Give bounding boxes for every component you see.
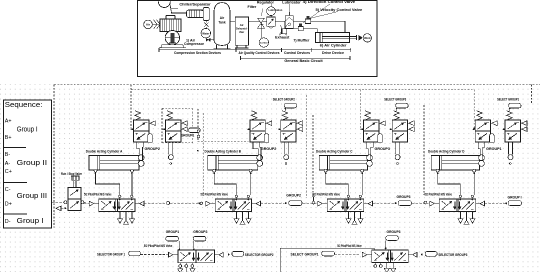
svg-text:GROUP3: GROUP3 (387, 230, 401, 234)
svg-text:Group I: Group I (17, 218, 44, 225)
svg-text:GROUP2: GROUP2 (145, 147, 161, 151)
svg-text:Double Acting Cylinder B: Double Acting Cylinder B (205, 149, 242, 153)
svg-text:Chiller/Separator: Chiller/Separator (179, 2, 211, 6)
svg-text:SELECT GROUP1: SELECT GROUP1 (291, 253, 319, 257)
svg-text:SELECT GROUP3: SELECT GROUP3 (384, 97, 406, 101)
svg-text:C-: C- (5, 187, 11, 193)
svg-text:A-: A- (5, 161, 11, 167)
svg-text:GROUP I: GROUP I (508, 195, 522, 199)
svg-text:SELECT GROUP2: SELECT GROUP2 (273, 97, 295, 101)
svg-text:GROUP1: GROUP1 (166, 230, 180, 234)
svg-text:GROUP1: GROUP1 (181, 133, 194, 137)
svg-text:GROUP3: GROUP3 (375, 147, 391, 151)
svg-text:5/2 Pilot/Pilot M/S Valve: 5/2 Pilot/Pilot M/S Valve (144, 244, 173, 248)
svg-text:Work: Work (364, 36, 371, 40)
svg-text:Group III: Group III (17, 193, 47, 200)
svg-text:5) Velocity Control Valve: 5) Velocity Control Valve (316, 8, 363, 12)
svg-text:Compression Section Devices: Compression Section Devices (174, 51, 221, 55)
svg-text:D+: D+ (5, 201, 12, 207)
svg-text:Run / Stop Valve: Run / Stop Valve (61, 172, 82, 176)
svg-text:B+: B+ (5, 135, 12, 141)
svg-text:Lubricator: Lubricator (282, 0, 301, 4)
svg-text:Compressor: Compressor (184, 42, 205, 46)
svg-text:SELECTOR GROUP2: SELECTOR GROUP2 (245, 253, 274, 257)
svg-text:Group I: Group I (17, 126, 38, 133)
svg-text:Air: Air (220, 16, 225, 20)
svg-text:4) Direction Control Valve: 4) Direction Control Valve (303, 0, 355, 4)
svg-text:D-: D- (5, 219, 11, 225)
svg-text:Sequence:: Sequence: (5, 100, 43, 109)
svg-text:B-: B- (5, 152, 11, 158)
svg-text:7) Muffler: 7) Muffler (293, 39, 310, 43)
svg-text:A+: A+ (5, 119, 12, 125)
svg-text:SELECTOR GROUP3: SELECTOR GROUP3 (438, 253, 467, 257)
svg-text:Double Acting Cylinder A: Double Acting Cylinder A (86, 149, 123, 153)
svg-text:Group II: Group II (17, 160, 47, 167)
svg-text:5/2 Pilot/Pilot M/S Valve: 5/2 Pilot/Pilot M/S Valve (84, 192, 112, 196)
svg-text:Filter: Filter (248, 5, 257, 9)
svg-text:5/2 Pilot/Pilot M/S Valve: 5/2 Pilot/Pilot M/S Valve (201, 192, 229, 196)
svg-text:GROUP2: GROUP2 (286, 193, 301, 197)
svg-text:SELECTOR GROUP 1: SELECTOR GROUP 1 (97, 253, 125, 257)
svg-text:Tank: Tank (218, 21, 225, 25)
svg-text:Exhaust: Exhaust (275, 36, 290, 40)
svg-text:ifier: ifier (239, 30, 245, 34)
svg-text:C+: C+ (5, 169, 12, 175)
svg-text:Dust/Water: Dust/Water (260, 42, 268, 45)
svg-text:Water: Water (202, 31, 209, 35)
svg-text:Double Acting Cylinder C: Double Acting Cylinder C (316, 149, 353, 153)
svg-text:Lubrication: Lubrication (269, 8, 283, 12)
svg-text:Air Quality Control Devices: Air Quality Control Devices (239, 51, 280, 55)
svg-text:6) Air Cylinder: 6) Air Cylinder (320, 43, 347, 47)
svg-text:GROUP1: GROUP1 (486, 147, 502, 151)
svg-text:5/2 Pilot/Pilot M/S Valve: 5/2 Pilot/Pilot M/S Valve (425, 192, 453, 196)
svg-text:SELECT GROUP1: SELECT GROUP1 (497, 97, 519, 101)
svg-text:General Basic Circuit: General Basic Circuit (284, 59, 323, 63)
svg-text:GROUP3: GROUP3 (397, 195, 411, 199)
svg-text:5/2 Pilot/Pilot M/S Valve: 5/2 Pilot/Pilot M/S Valve (337, 244, 362, 248)
svg-text:GROUP2: GROUP2 (193, 230, 207, 234)
svg-text:Regulator: Regulator (257, 0, 275, 4)
svg-text:Double Acting Cylinder D: Double Acting Cylinder D (428, 149, 465, 153)
svg-text:Control Devices: Control Devices (284, 51, 310, 55)
svg-text:GROUP2: GROUP2 (261, 147, 277, 151)
svg-text:Drive Device: Drive Device (322, 51, 344, 55)
svg-text:5/2 Pilot/Pilot M/S Valve: 5/2 Pilot/Pilot M/S Valve (313, 192, 341, 196)
